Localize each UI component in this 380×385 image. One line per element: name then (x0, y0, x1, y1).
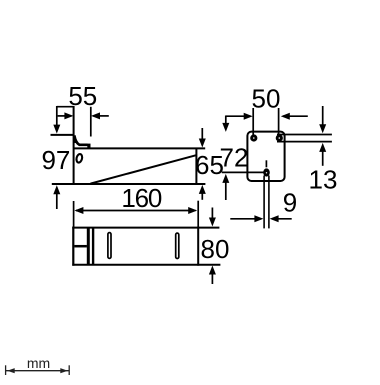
svg-text:160: 160 (121, 183, 162, 213)
svg-text:97: 97 (41, 145, 70, 175)
svg-text:50: 50 (252, 83, 281, 113)
svg-text:55: 55 (68, 81, 97, 111)
svg-text:80: 80 (201, 234, 230, 264)
svg-text:9: 9 (283, 188, 297, 218)
svg-text:72: 72 (220, 142, 249, 172)
svg-text:13: 13 (309, 164, 338, 194)
svg-text:mm: mm (27, 355, 50, 371)
